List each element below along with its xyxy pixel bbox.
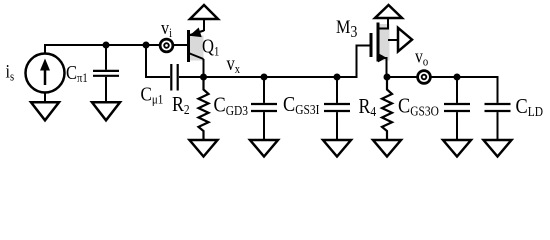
power supply symbol above Q1	[190, 5, 218, 19]
node dot (C_GS3I tap)	[334, 74, 341, 81]
output port arrow right of M3	[388, 39, 398, 41]
node vx junction dot	[200, 74, 207, 81]
wire down to C_pi1	[105, 45, 107, 70]
ground (under C_GS3I)	[323, 140, 351, 157]
terminal node vi	[160, 39, 173, 52]
ground (under C_GD3)	[250, 140, 278, 157]
node dot (C_mu1 tap on top rail)	[143, 42, 150, 49]
node dot (C_pi1 tap on top rail)	[103, 42, 110, 49]
ground (under C_LD)	[484, 140, 512, 157]
ground (under current source)	[31, 102, 59, 120]
wire down and right to C_mu1	[146, 45, 170, 77]
power supply symbol above M3	[375, 5, 402, 18]
wire top rail from current source to Q1 base	[45, 45, 187, 54]
node dot (C_GS3O tap)	[454, 74, 461, 81]
node dot (M3 source / R4 / vo junction)	[384, 74, 391, 81]
capacitor C_mu1	[170, 64, 172, 91]
wire current source to ground	[44, 93, 46, 103]
capacitor C_pi1	[93, 70, 119, 72]
wire vo rail	[387, 77, 498, 103]
ground (under C_pi1)	[92, 102, 120, 120]
capacitor C_GS3I	[336, 77, 338, 103]
wire C_pi1 to ground	[105, 77, 107, 102]
capacitor C_LD	[485, 103, 511, 105]
current source is	[26, 54, 65, 93]
ground (under R4)	[373, 140, 401, 157]
capacitor C_GS3O	[456, 77, 458, 103]
terminal node vo	[418, 71, 431, 84]
resistor R4	[382, 77, 392, 140]
wire vx rail to M3 gate	[204, 46, 370, 78]
node dot (C_GD3 tap)	[261, 74, 268, 81]
ground (under C_GS3O)	[443, 140, 471, 157]
transistor Q1 (PNP)	[190, 36, 204, 61]
wire C_mu1 to vx junction	[179, 76, 204, 78]
transistor M3 (MOSFET)	[380, 24, 390, 61]
ground (under R2)	[190, 140, 218, 157]
capacitor C_GD3	[263, 77, 265, 103]
resistor R2	[199, 77, 209, 140]
